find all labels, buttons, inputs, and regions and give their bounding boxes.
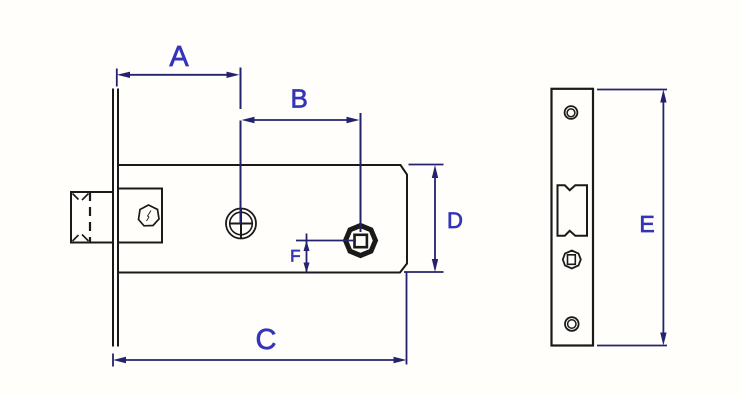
faceplate (side view, right line)	[117, 89, 119, 347]
dim A extension line right (upper segment)	[240, 68, 242, 110]
dim C line	[118, 359, 402, 361]
latch bolt front (notched)	[558, 185, 588, 235]
latch bolt (side view)	[71, 192, 113, 243]
screw cross vertical	[240, 208, 242, 238]
top screw hole inner	[567, 109, 575, 117]
svg-text:C: C	[256, 324, 277, 356]
svg-text:F: F	[290, 247, 300, 266]
screw head outer circle	[226, 209, 256, 239]
svg-text:E: E	[639, 211, 654, 237]
latch bolt hidden line (dashed)	[89, 192, 91, 243]
arrowhead E bottom	[660, 333, 666, 346]
latch bolt chamfer mark top-left	[73, 194, 79, 200]
spindle nut octagon	[346, 226, 376, 256]
arrowhead D bottom	[432, 259, 438, 272]
arrowhead D top	[432, 165, 438, 178]
top screw hole outer	[565, 106, 578, 119]
bottom screw hole inner	[568, 320, 576, 328]
hexagon follower in housing	[139, 205, 160, 226]
arrowhead C left	[113, 357, 126, 363]
svg-text:A: A	[169, 41, 189, 73]
arrowhead B right	[347, 117, 360, 123]
lock body outline with chamfered right corners	[118, 165, 407, 273]
spindle square hole	[355, 235, 367, 247]
dim D extension top	[409, 164, 444, 166]
faceplate (side view, left line)	[112, 89, 114, 347]
middle screw hex	[563, 251, 581, 269]
latch bolt chamfer mark top-right	[82, 194, 89, 201]
bolt housing box	[118, 189, 162, 243]
hexagon squiggle	[147, 211, 152, 222]
latch bolt chamfer mark bottom-right	[82, 235, 89, 242]
arrowhead F down	[304, 263, 310, 274]
arrowhead A right	[227, 72, 240, 78]
dim E line	[662, 93, 664, 341]
faceplate front outline	[552, 89, 594, 346]
latch bolt chamfer mark bottom-left	[73, 235, 79, 241]
screw head inner circle	[230, 212, 253, 235]
dim D line	[434, 170, 436, 267]
svg-text:D: D	[447, 208, 463, 233]
dim F line	[306, 234, 308, 273]
bottom screw hole outer	[565, 317, 579, 331]
dim B line	[246, 119, 355, 121]
arrowhead F up	[304, 241, 310, 252]
dim E extension bottom	[597, 345, 667, 347]
svg-text:B: B	[291, 84, 308, 114]
dim F tick line	[296, 240, 356, 242]
dim A/B extension line right (lower segment, down to screw)	[240, 121, 242, 224]
dim B extension right (down to nut)	[360, 113, 362, 232]
arrowhead E top	[660, 90, 666, 103]
arrowhead A left	[117, 72, 130, 78]
middle screw inner square	[568, 255, 576, 264]
dim C extension right	[406, 273, 408, 365]
arrowhead C right	[394, 357, 407, 363]
dim C tick left	[112, 354, 114, 367]
screw cross horizontal	[231, 223, 252, 225]
dim A line	[122, 74, 235, 76]
arrowhead B left	[242, 117, 255, 123]
dim E extension top	[597, 89, 667, 91]
dim D extension bottom	[404, 271, 444, 273]
dim A extension tick left	[116, 69, 118, 87]
